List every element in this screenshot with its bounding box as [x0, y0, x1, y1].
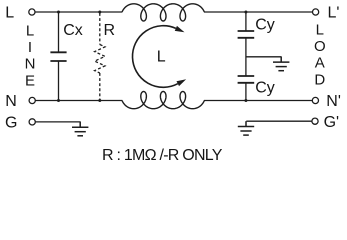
terminal L' (load, top-right): [313, 9, 319, 15]
svg-text:G': G': [324, 114, 340, 131]
label LINE (vertical): [25, 22, 36, 89]
node: Cy1 top junction: [244, 11, 247, 14]
capacitor Cy (top): [238, 12, 255, 76]
wire: G' terminal to ground: [246, 120, 312, 122]
terminal L (line, top-left): [29, 9, 35, 15]
svg-text:L: L: [157, 48, 166, 65]
ground (line side): [72, 122, 88, 136]
svg-text:N: N: [25, 56, 36, 73]
svg-text:N: N: [5, 93, 17, 110]
coupling arrow (circular, both ends): [132, 26, 186, 88]
terminal G (line ground): [29, 119, 35, 125]
svg-text:L': L': [328, 4, 340, 21]
node: Cy2 bottom junction: [244, 99, 247, 102]
inductor L winding bottom (common-mode choke): [122, 92, 204, 109]
svg-text:L: L: [316, 21, 324, 38]
ground (Cy midpoint): [273, 57, 289, 71]
wire: top bus L terminal to choke: [35, 11, 122, 13]
wire: bottom bus N terminal to choke: [35, 100, 122, 102]
node: R bottom junction: [98, 99, 101, 102]
wire: top bus choke to L' terminal: [204, 11, 313, 13]
inductor L winding top (common-mode choke): [122, 4, 204, 21]
terminal N' (load, bottom-right): [312, 97, 318, 103]
terminal G' (load ground): [312, 118, 318, 124]
svg-text:I: I: [28, 39, 32, 56]
label LOAD (vertical): [314, 21, 326, 88]
svg-text:E: E: [25, 72, 35, 89]
wire: Cy midpoint to ground: [246, 56, 282, 58]
svg-text:N': N': [326, 93, 341, 110]
svg-text:A: A: [315, 55, 325, 72]
svg-text:L: L: [26, 22, 34, 39]
terminal N (line, bottom-left): [29, 97, 35, 103]
capacitor Cx: [50, 12, 66, 101]
svg-text:Cy: Cy: [255, 80, 275, 97]
ground (load side, G'): [238, 121, 254, 135]
svg-text:Cy: Cy: [255, 16, 275, 33]
svg-text:R : 1MΩ /-R ONLY: R : 1MΩ /-R ONLY: [102, 147, 223, 164]
svg-text:G: G: [5, 114, 17, 131]
wire: G terminal to ground: [35, 121, 80, 123]
node: Cx bottom junction: [57, 99, 60, 102]
wire: bottom bus choke to N' terminal: [204, 100, 312, 102]
resistor R (optional, dashed): [95, 13, 105, 101]
node: R top junction: [98, 11, 101, 14]
svg-text:R: R: [104, 22, 116, 39]
svg-text:O: O: [314, 38, 326, 55]
capacitor Cy (bottom): [238, 76, 255, 101]
svg-text:L: L: [5, 4, 14, 21]
svg-text:D: D: [314, 71, 325, 88]
svg-text:Cx: Cx: [63, 22, 83, 39]
node: Cx top junction: [57, 11, 60, 14]
